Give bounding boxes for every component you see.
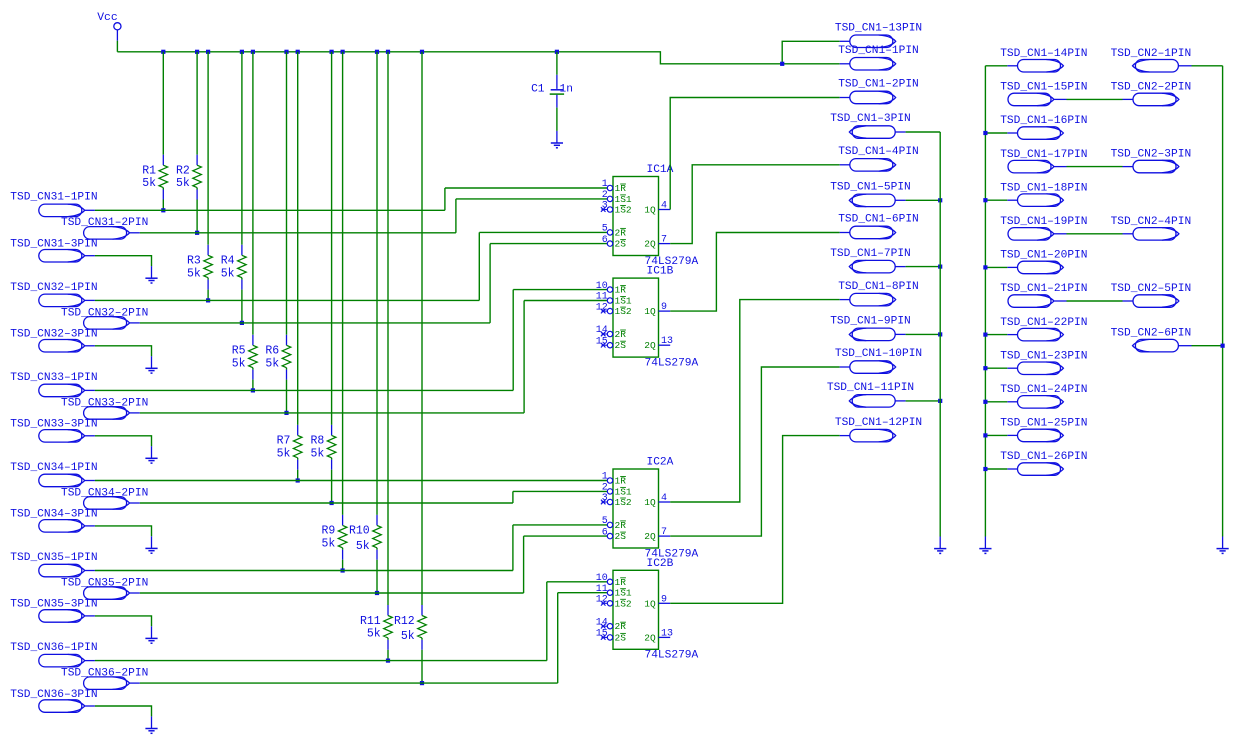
svg-text:5k: 5k — [176, 177, 190, 190]
label R6 — [265, 345, 279, 358]
wire to TSD_CN1-13PIN — [782, 41, 840, 64]
svg-text:TSD_CN1–24PIN: TSD_CN1–24PIN — [1000, 384, 1087, 396]
svg-text:TSD_CN1–21PIN: TSD_CN1–21PIN — [1000, 283, 1087, 295]
pin 13 (2Q) stub of IC2B — [659, 636, 671, 638]
pin name 1S2 — [615, 205, 632, 216]
label R10 — [349, 525, 370, 538]
label TSD_CN1-3PIN — [830, 113, 911, 125]
pin name 2S — [615, 340, 627, 351]
wire TSD_CN32-2PIN row — [140, 322, 490, 324]
wire CN33-2 to IC pin — [524, 300, 607, 302]
pin number 2 — [602, 190, 608, 201]
wire IC1B Q to TSD_CN1-6PIN — [670, 233, 840, 312]
pin name 2S — [615, 632, 627, 643]
svg-text:4: 4 — [661, 493, 667, 504]
connector port TSD_CN35-1PIN — [39, 564, 95, 577]
wire R7 to row — [297, 470, 299, 481]
junction on Vcc rail at CN1-13 branch — [780, 62, 784, 66]
connector port TSD_CN1-7PIN — [849, 260, 905, 273]
svg-text:2: 2 — [602, 483, 608, 494]
connector port TSD_CN35-2PIN — [84, 587, 140, 600]
pin name 1R — [615, 285, 627, 296]
label TSD_CN33-3PIN — [10, 419, 97, 431]
connector port TSD_CN1-1PIN — [840, 58, 896, 71]
wire TSD_CN33-1PIN row — [95, 389, 513, 391]
pin 12 (1S2) of IC1B — [601, 308, 613, 313]
pin number 11 — [596, 292, 608, 303]
pin number 5 — [602, 516, 608, 527]
pin number 1 — [602, 179, 608, 190]
label TSD_CN1-17PIN — [1000, 149, 1087, 161]
label R8 value 5k — [310, 447, 324, 460]
svg-text:2Q: 2Q — [644, 531, 656, 542]
label TSD_CN1-21PIN — [1000, 283, 1087, 295]
connector port TSD_CN34-1PIN — [39, 474, 95, 487]
pin name 1Q of IC1B — [644, 306, 656, 317]
label TSD_CN1-16PIN — [1000, 115, 1087, 127]
svg-text:74LS279A: 74LS279A — [645, 650, 699, 662]
junction Vcc rail col 9 — [341, 50, 345, 54]
wire TSD_CN32-3PIN to ground — [95, 346, 152, 356]
junction Vcc rail col 6 — [284, 50, 288, 54]
connector port TSD_CN1-4PIN — [840, 159, 896, 172]
svg-text:TSD_CN1–23PIN: TSD_CN1–23PIN — [1000, 350, 1087, 362]
pin name 1Q of IC2A — [644, 497, 656, 508]
svg-text:TSD_CN36–3PIN: TSD_CN36–3PIN — [10, 689, 97, 701]
svg-text:TSD_CN1–26PIN: TSD_CN1–26PIN — [1000, 451, 1087, 463]
svg-text:6: 6 — [602, 527, 608, 538]
connector port TSD_CN1-25PIN — [1007, 429, 1063, 442]
wire CN32-1 to IC pin — [479, 231, 607, 233]
junction R3 bottom — [206, 298, 210, 302]
wire Vcc to R10 — [376, 52, 378, 515]
wire TSD_CN32-1PIN row — [95, 299, 479, 301]
junction R10 bottom — [375, 591, 379, 595]
label TSD_CN1-9PIN — [830, 316, 911, 328]
junction R6 bottom — [284, 411, 288, 415]
pin 4 (1Q) stub of IC2A — [659, 501, 671, 503]
label TSD_CN1-19PIN — [1000, 216, 1087, 228]
ground below C1 — [551, 131, 563, 148]
wire TSD_CN1-3PIN to ground rail — [906, 131, 941, 133]
svg-text:TSD_CN1–2PIN: TSD_CN1–2PIN — [838, 79, 919, 91]
svg-text:Vcc: Vcc — [97, 12, 118, 24]
wire TSD_CN1-5PIN to ground rail — [906, 199, 941, 201]
pin 9 (1Q) stub of IC1B — [659, 310, 671, 312]
op-amp-style latch box IC2B (74LS279A quarter) — [613, 570, 659, 649]
wire CN33-1 to IC pin — [513, 289, 607, 291]
label TSD_CN34-3PIN — [10, 509, 97, 521]
wire TSD_CN34-3PIN to ground — [95, 526, 152, 536]
connector port TSD_CN1-5PIN — [849, 194, 905, 207]
ground CN35-3 — [145, 626, 157, 643]
pin number 1 — [602, 472, 608, 483]
pin 10 (1R) of IC1B — [607, 287, 612, 292]
junction ground rail CN1-5 — [938, 198, 942, 202]
connector port TSD_CN1-18PIN — [1007, 194, 1063, 207]
svg-text:R12: R12 — [394, 615, 415, 628]
connector port TSD_CN1-23PIN — [1007, 362, 1063, 375]
junction R5 bottom — [251, 388, 255, 392]
svg-text:5k: 5k — [187, 267, 201, 280]
junction Vcc rail col 13 — [555, 50, 559, 54]
svg-text:R4: R4 — [221, 255, 235, 268]
label IC1B — [647, 266, 674, 278]
wire CN32-2 riser — [489, 244, 491, 323]
connector port TSD_CN1-17PIN — [1008, 160, 1067, 173]
pin number 13 — [661, 628, 673, 639]
label TSD_CN33-2PIN — [61, 397, 148, 409]
wire CN32-2 to IC pin — [490, 243, 607, 245]
wire Vcc to R11 — [387, 52, 389, 605]
svg-text:5k: 5k — [367, 628, 381, 641]
resistor R6 — [282, 335, 291, 380]
wire TSD_CN1-7PIN to ground rail — [906, 266, 941, 268]
pin name 2R — [615, 227, 627, 238]
wire R5 to row — [252, 380, 254, 391]
label IC2B part 74LS279A — [645, 650, 699, 662]
svg-text:R7: R7 — [277, 435, 291, 448]
svg-text:TSD_CN34–3PIN: TSD_CN34–3PIN — [10, 509, 97, 521]
wire CN31-2 riser — [455, 199, 457, 233]
connector port TSD_CN1-6PIN — [840, 226, 896, 239]
wire TSD_CN1-14PIN to rail — [985, 65, 1007, 67]
svg-text:1: 1 — [602, 179, 608, 190]
svg-text:9: 9 — [661, 302, 667, 313]
pin number 5 — [602, 224, 608, 235]
pin name 2S — [615, 239, 627, 250]
svg-text:TSD_CN1–15PIN: TSD_CN1–15PIN — [1000, 82, 1087, 94]
svg-text:1Q: 1Q — [644, 205, 656, 216]
wire IC1A Q to TSD_CN1-2PIN — [670, 98, 840, 210]
junction rail CN1-24 — [983, 400, 987, 404]
label R9 value 5k — [321, 537, 335, 550]
connector port TSD_CN34-2PIN — [84, 497, 140, 510]
label TSD_CN1-15PIN — [1000, 82, 1087, 94]
svg-text:TSD_CN1–20PIN: TSD_CN1–20PIN — [1000, 250, 1087, 262]
svg-text:R5: R5 — [232, 345, 246, 358]
svg-text:TSD_CN36–1PIN: TSD_CN36–1PIN — [10, 642, 97, 654]
svg-text:2: 2 — [602, 190, 608, 201]
pin 2 (1S1) of IC1A — [607, 196, 612, 201]
ground CN33-3 — [145, 446, 157, 463]
svg-text:2S: 2S — [615, 239, 627, 250]
capacitor C1 — [550, 52, 564, 131]
wire CN31-1 riser — [444, 188, 446, 210]
label R12 value 5k — [401, 630, 415, 643]
label IC1A — [647, 164, 674, 176]
label R2 value 5k — [176, 177, 190, 190]
connector port TSD_CN32-2PIN — [84, 317, 140, 330]
wire CN2 ground rail — [1222, 66, 1224, 537]
pin number 9 — [661, 302, 667, 313]
wire CN33-1 riser — [512, 290, 514, 391]
svg-text:1R: 1R — [615, 577, 627, 588]
wire TSD_CN1-20PIN to rail — [985, 266, 1007, 268]
label TSD_CN31-2PIN — [61, 217, 148, 229]
label R4 — [221, 255, 235, 268]
svg-text:1S1: 1S1 — [615, 588, 632, 599]
pin number 2 — [602, 483, 608, 494]
pin number 12 — [596, 595, 608, 606]
junction Vcc rail col 5 — [251, 50, 255, 54]
pin number 6 — [602, 527, 608, 538]
pin 7 (2Q) stub of IC1A — [659, 243, 671, 245]
label IC2A — [647, 457, 674, 469]
wire Vcc to R2 — [196, 52, 198, 155]
label R11 — [360, 615, 381, 628]
wire CN36-2 riser — [557, 593, 559, 683]
label TSD_CN36-3PIN — [10, 689, 97, 701]
pin number 14 — [596, 325, 608, 336]
svg-text:TSD_CN2–5PIN: TSD_CN2–5PIN — [1111, 283, 1192, 295]
svg-text:2Q: 2Q — [644, 632, 656, 643]
pin name 1S1 — [615, 486, 632, 497]
pin name 1S2 — [615, 598, 632, 609]
wire CN31-1 to IC pin — [445, 187, 607, 189]
pin number 15 — [596, 629, 608, 640]
pin 10 (1R) of IC2B — [607, 579, 612, 584]
wire TSD_CN2-6PIN to rail — [1192, 345, 1223, 347]
pin 13 (2Q) stub of IC1B — [659, 344, 671, 346]
label R6 value 5k — [265, 357, 279, 370]
label TSD_CN1-26PIN — [1000, 451, 1087, 463]
junction Vcc rail col 12 — [420, 50, 424, 54]
pin 14 (2R) of IC1B — [601, 331, 613, 336]
connector port TSD_CN2-2PIN — [1123, 93, 1179, 106]
pin name 2Q of IC1B — [644, 340, 656, 351]
connector port TSD_CN2-6PIN — [1133, 339, 1192, 352]
wire TSD_CN31-3PIN to ground — [95, 256, 152, 266]
label R10 value 5k — [356, 540, 370, 553]
label TSD_CN1-24PIN — [1000, 384, 1087, 396]
label R3 — [187, 255, 201, 268]
connector port TSD_CN1-14PIN — [1007, 60, 1063, 73]
label TSD_CN1-4PIN — [838, 146, 919, 158]
label TSD_CN1-20PIN — [1000, 250, 1087, 262]
label R4 value 5k — [221, 267, 235, 280]
connector port TSD_CN2-4PIN — [1123, 228, 1179, 241]
label TSD_CN2-5PIN — [1111, 283, 1192, 295]
svg-text:3: 3 — [602, 493, 608, 504]
svg-text:R9: R9 — [321, 525, 335, 538]
svg-text:TSD_CN1–3PIN: TSD_CN1–3PIN — [830, 113, 911, 125]
pin 5 (2R) of IC2A — [607, 522, 612, 527]
wire Vcc to R1 — [162, 52, 164, 155]
label TSD_CN2-1PIN — [1111, 48, 1192, 60]
label IC2A part 74LS279A — [645, 548, 699, 560]
svg-text:13: 13 — [661, 628, 673, 639]
svg-text:TSD_CN35–3PIN: TSD_CN35–3PIN — [10, 599, 97, 611]
svg-text:9: 9 — [661, 594, 667, 605]
pin number 3 — [602, 493, 608, 504]
pin number 3 — [602, 201, 608, 212]
junction Vcc rail col 8 — [330, 50, 334, 54]
svg-text:TSD_CN1–17PIN: TSD_CN1–17PIN — [1000, 149, 1087, 161]
connector port TSD_CN1-11PIN — [849, 395, 905, 408]
svg-text:74LS279A: 74LS279A — [645, 357, 699, 369]
pin 6 (2S) of IC1A — [607, 241, 612, 246]
label TSD_CN2-6PIN — [1111, 328, 1192, 340]
label IC2B — [647, 558, 674, 570]
connector port TSD_CN34-3PIN — [39, 520, 95, 533]
wire R3 to row — [207, 290, 209, 301]
svg-text:1Q: 1Q — [644, 497, 656, 508]
label R9 — [321, 525, 335, 538]
pin number 15 — [596, 336, 608, 347]
wire IC2B Q to TSD_CN1-12PIN — [670, 436, 840, 604]
svg-text:7: 7 — [661, 527, 667, 538]
junction R1 bottom — [161, 208, 165, 212]
wire CN36-1 riser — [546, 582, 548, 661]
svg-text:TSD_CN2–1PIN: TSD_CN2–1PIN — [1111, 48, 1192, 60]
svg-text:1n: 1n — [560, 83, 573, 95]
pin 14 (2R) of IC2B — [601, 624, 613, 629]
pin name 1S2 — [615, 306, 632, 317]
resistor R1 — [159, 155, 168, 200]
pin number 11 — [596, 584, 608, 595]
wire TSD_CN1-26PIN to rail — [985, 468, 1007, 470]
ground CN31-3 — [145, 266, 157, 283]
svg-text:R1: R1 — [142, 165, 156, 178]
svg-text:TSD_CN1–18PIN: TSD_CN1–18PIN — [1000, 182, 1087, 194]
label TSD_CN34-2PIN — [61, 487, 148, 499]
label TSD_CN1-25PIN — [1000, 418, 1087, 430]
junction rail CN1-23 — [983, 366, 987, 370]
wire Vcc to R8 — [331, 52, 333, 425]
junction Vcc rail col 11 — [386, 50, 390, 54]
svg-text:1: 1 — [602, 472, 608, 483]
pin number 12 — [596, 302, 608, 313]
pin name 2S — [615, 531, 627, 542]
label IC1B part 74LS279A — [645, 357, 699, 369]
svg-text:1S1: 1S1 — [615, 486, 632, 497]
label R7 value 5k — [277, 447, 291, 460]
pin name 1S2 — [615, 497, 632, 508]
junction Vcc rail col 10 — [375, 50, 379, 54]
svg-text:3: 3 — [602, 201, 608, 212]
svg-text:12: 12 — [596, 302, 608, 313]
svg-text:R6: R6 — [265, 345, 279, 358]
pin name 1S1 — [615, 194, 632, 205]
wire TSD_CN1-16PIN to rail — [985, 132, 1007, 134]
svg-text:TSD_CN1–10PIN: TSD_CN1–10PIN — [835, 348, 922, 360]
svg-text:2R: 2R — [615, 621, 627, 632]
svg-text:TSD_CN1–12PIN: TSD_CN1–12PIN — [835, 417, 922, 429]
label R1 value 5k — [142, 177, 156, 190]
pin number 13 — [661, 336, 673, 347]
svg-text:5: 5 — [602, 516, 608, 527]
svg-text:TSD_CN2–6PIN: TSD_CN2–6PIN — [1111, 328, 1192, 340]
svg-text:2R: 2R — [615, 227, 627, 238]
svg-text:15: 15 — [596, 336, 608, 347]
svg-text:IC1B: IC1B — [647, 266, 674, 278]
svg-text:TSD_CN35–1PIN: TSD_CN35–1PIN — [10, 552, 97, 564]
svg-text:TSD_CN1–4PIN: TSD_CN1–4PIN — [838, 146, 919, 158]
connector port TSD_CN32-1PIN — [39, 294, 95, 307]
pin number 10 — [596, 281, 608, 292]
junction ground rail CN1-7 — [938, 265, 942, 269]
junction R4 bottom — [240, 321, 244, 325]
wire CN35-1 riser — [512, 525, 514, 571]
pin name 2R — [615, 621, 627, 632]
resistor R3 — [204, 245, 213, 290]
svg-text:TSD_CN32–2PIN: TSD_CN32–2PIN — [61, 307, 148, 319]
connector port TSD_CN33-2PIN — [84, 407, 140, 420]
wire TSD_CN35-1PIN row — [95, 570, 513, 572]
pin 15 (2S) of IC1B — [601, 343, 613, 348]
svg-text:1R: 1R — [615, 476, 627, 487]
svg-text:TSD_CN31–2PIN: TSD_CN31–2PIN — [61, 217, 148, 229]
svg-text:4: 4 — [661, 201, 667, 212]
pin name 1R — [615, 183, 627, 194]
svg-text:TSD_CN2–4PIN: TSD_CN2–4PIN — [1111, 216, 1192, 228]
pin 9 (1Q) stub of IC2B — [659, 602, 671, 604]
pin name 1Q of IC2B — [644, 598, 656, 609]
pin name 2Q of IC1A — [644, 239, 656, 250]
resistor R5 — [249, 335, 258, 380]
pin number 4 — [661, 493, 667, 504]
pin 4 (1Q) stub of IC1A — [659, 209, 671, 211]
svg-text:5k: 5k — [356, 540, 370, 553]
wire R11 to row — [387, 650, 389, 661]
wire TSD_CN31-2PIN row — [140, 232, 456, 234]
svg-text:TSD_CN33–2PIN: TSD_CN33–2PIN — [61, 397, 148, 409]
connector port TSD_CN2-1PIN — [1133, 60, 1192, 73]
connector port TSD_CN36-3PIN — [39, 700, 95, 713]
svg-text:10: 10 — [596, 281, 608, 292]
wire TSD_CN36-2PIN row — [140, 682, 558, 684]
wire CN31-2 to IC pin — [456, 198, 607, 200]
pin number 6 — [602, 235, 608, 246]
wire TSD_CN33-2PIN row — [140, 412, 524, 414]
svg-text:11: 11 — [596, 584, 608, 595]
svg-text:TSD_CN1–19PIN: TSD_CN1–19PIN — [1000, 216, 1087, 228]
pin 5 (2R) of IC1A — [607, 230, 612, 235]
junction rail CN1-20 — [983, 265, 987, 269]
connector port TSD_CN1-22PIN — [1007, 328, 1063, 341]
wire IC1A Q to TSD_CN1-4PIN — [670, 165, 840, 244]
svg-text:2Q: 2Q — [644, 340, 656, 351]
label TSD_CN1-5PIN — [830, 182, 911, 194]
pin 6 (2S) of IC2A — [607, 533, 612, 538]
ground CN32-3 — [145, 356, 157, 373]
wire R12 to row — [421, 650, 423, 683]
svg-text:2S: 2S — [615, 531, 627, 542]
label Vcc — [97, 12, 118, 24]
wire R9 to row — [342, 560, 344, 571]
svg-text:13: 13 — [661, 336, 673, 347]
wire CN34-2 riser — [512, 491, 514, 503]
pin name 2R — [615, 520, 627, 531]
label TSD_CN36-2PIN — [61, 668, 148, 680]
label TSD_CN1-13PIN — [835, 23, 922, 35]
svg-text:TSD_CN31–3PIN: TSD_CN31–3PIN — [10, 239, 97, 251]
label R7 — [277, 435, 291, 448]
pin 3 (1S2) of IC2A — [601, 499, 613, 504]
svg-text:IC2B: IC2B — [647, 558, 674, 570]
wire TSD_CN36-3PIN to ground — [95, 706, 152, 716]
svg-text:1S2: 1S2 — [615, 205, 632, 216]
label TSD_CN36-1PIN — [10, 642, 97, 654]
label TSD_CN1-6PIN — [838, 214, 919, 226]
label TSD_CN1-14PIN — [1000, 48, 1087, 60]
svg-text:5k: 5k — [401, 630, 415, 643]
svg-text:2Q: 2Q — [644, 239, 656, 250]
connector port TSD_CN31-3PIN — [39, 250, 95, 263]
label TSD_CN2-4PIN — [1111, 216, 1192, 228]
connector port TSD_CN1-19PIN — [1008, 228, 1067, 241]
